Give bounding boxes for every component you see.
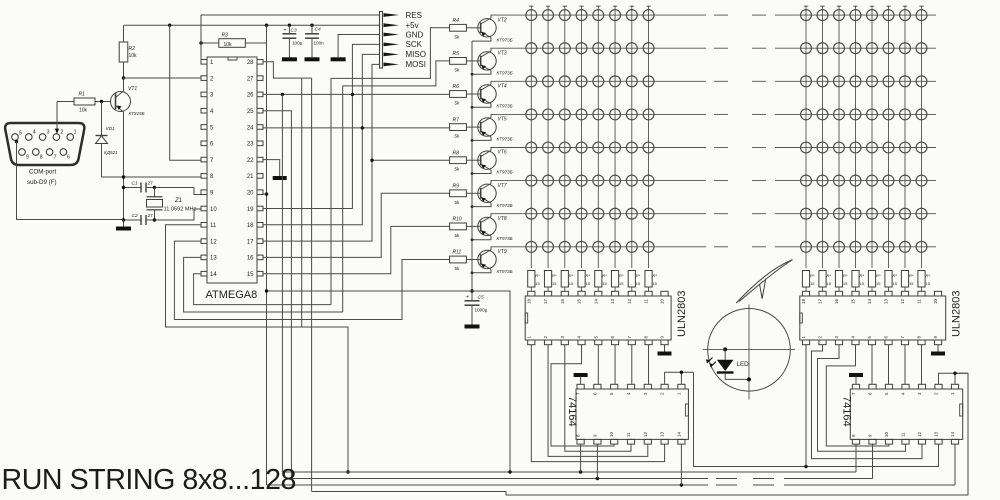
svg-text:R*: R*	[569, 273, 574, 278]
wire XTAL2 to pin 10	[155, 209, 202, 220]
LED matrix row wires	[491, 15, 937, 247]
resistor R9	[450, 184, 467, 205]
wire SCK riser to pin 19	[263, 44, 380, 208]
svg-text:15: 15	[602, 281, 607, 286]
wire bus2 riser	[263, 111, 291, 479]
wire pin 16 to R9	[263, 193, 450, 257]
wire ULN2 in4 wrap	[826, 345, 889, 446]
ground symbol ULN1	[658, 352, 672, 356]
junction VT7 emitter rail	[471, 205, 474, 208]
svg-text:8: 8	[40, 155, 43, 161]
wire bus4 DATA	[312, 373, 968, 495]
svg-text:13: 13	[934, 431, 939, 437]
junction MISO riser / R7 line	[361, 126, 364, 129]
wire R4 feed from loop	[331, 28, 450, 305]
connector X1 COM-port sub-D9	[5, 123, 84, 186]
svg-text:13: 13	[610, 299, 615, 305]
junction +5 rail / distribution	[470, 289, 473, 292]
svg-text:17: 17	[818, 299, 823, 305]
wire pin 22 to analog ground	[263, 160, 280, 176]
junction VT8 emitter rail	[471, 238, 474, 241]
transistor VT4	[466, 81, 512, 108]
svg-text:R*: R*	[926, 273, 931, 278]
junction 74164-1 pin8 on bus1	[579, 470, 582, 473]
junction VT4 emitter rail	[471, 106, 474, 109]
junction C2 / Z1 / XTAL2 node	[153, 218, 156, 221]
resistor R*a7	[628, 271, 641, 292]
svg-text:R*: R*	[876, 273, 881, 278]
IC U5 74164	[840, 384, 962, 444]
svg-text:10k: 10k	[224, 42, 233, 48]
junction C1 / Z1 / XTAL1 node	[153, 186, 156, 189]
svg-text:+: +	[284, 28, 287, 34]
svg-text:2: 2	[60, 130, 63, 136]
wire pin 12 loop to R11	[174, 241, 449, 319]
svg-text:19: 19	[247, 207, 254, 213]
LED matrix block2 LEDs	[801, 10, 927, 253]
wire bus1 CLK	[282, 471, 708, 473]
resistor R*b3	[835, 271, 848, 292]
svg-text:R5: R5	[453, 51, 460, 57]
svg-text:R*: R*	[619, 273, 624, 278]
svg-text:12: 12	[643, 431, 648, 437]
svg-text:VT5: VT5	[498, 117, 507, 123]
svg-text:14: 14	[867, 299, 872, 305]
svg-text:ATMEGA8: ATMEGA8	[206, 289, 258, 301]
svg-text:+5v: +5v	[406, 21, 419, 30]
svg-text:5: 5	[19, 131, 22, 137]
wire bus2 CLR	[291, 478, 708, 480]
wire GND net VD1 to ATMEGA8 pin 8	[102, 176, 202, 178]
magnifier circle	[708, 309, 791, 392]
svg-text:7: 7	[54, 155, 57, 161]
resistor R1	[57, 92, 111, 114]
svg-text:R*: R*	[552, 273, 557, 278]
wire ULN1 pin9 ground	[664, 345, 666, 352]
svg-text:VT6: VT6	[498, 150, 507, 156]
svg-text:КТ973Б: КТ973Б	[497, 269, 513, 274]
resistor R11	[450, 250, 467, 271]
svg-text:10: 10	[933, 299, 938, 305]
diode VD1	[96, 102, 119, 178]
svg-text:КТ315Б: КТ315Б	[129, 111, 145, 116]
svg-text:18: 18	[247, 223, 254, 229]
wire VCC riser to pin 7	[170, 25, 201, 160]
svg-text:R*: R*	[893, 273, 898, 278]
junction VT9 emitter rail	[471, 271, 474, 274]
transistor VT6	[466, 148, 512, 175]
wire +5 distribution	[267, 291, 511, 472]
resistor R*b5	[868, 271, 881, 292]
svg-text:КТ973Б: КТ973Б	[497, 170, 513, 175]
svg-text:11: 11	[917, 299, 922, 304]
wire pin 13 wrap loop to R5	[184, 257, 343, 312]
svg-text:R11: R11	[453, 250, 462, 256]
ground symbol C5	[465, 325, 480, 329]
resistor R*a6	[611, 271, 624, 292]
svg-text:R*: R*	[909, 273, 914, 278]
svg-text:15: 15	[893, 281, 898, 286]
svg-text:15: 15	[810, 281, 815, 286]
wire ULN1 in4 wrap	[551, 345, 614, 446]
wire bus1 riser	[281, 94, 283, 472]
junction pin 20 tap	[265, 192, 268, 195]
ground symbol main	[116, 220, 131, 231]
svg-text:R*: R*	[843, 273, 848, 278]
svg-text:9: 9	[26, 155, 29, 161]
wire ULN2 in1 drop	[805, 345, 807, 467]
svg-text:КТ973Б: КТ973Б	[497, 37, 513, 42]
svg-text:13: 13	[884, 299, 889, 305]
svg-text:100n: 100n	[314, 41, 325, 46]
ground symbol 74164-1	[574, 373, 588, 377]
wire pin 20 stub	[263, 193, 267, 195]
wire 74164-1 pin14 drop	[680, 444, 682, 485]
wire ULN1 in8 to 74164	[648, 345, 650, 385]
wire ULN2 in7 to 74164	[904, 345, 906, 385]
svg-text:VT1: VT1	[128, 86, 137, 92]
wire ULN1 in3 wrap	[565, 345, 631, 452]
resistor R*b2	[819, 271, 832, 292]
svg-text:11.0592 MHz: 11.0592 MHz	[164, 207, 197, 213]
ground symbol C3	[282, 57, 297, 61]
svg-text:12: 12	[900, 299, 905, 305]
svg-text:C4: C4	[315, 27, 321, 33]
svg-text:VT7: VT7	[498, 183, 507, 189]
svg-text:5k: 5k	[455, 101, 461, 106]
svg-text:14: 14	[593, 299, 598, 305]
magnifier arrow swoosh	[736, 260, 792, 303]
svg-text:VT9: VT9	[498, 249, 507, 255]
svg-text:11: 11	[210, 223, 217, 229]
svg-text:17: 17	[247, 239, 254, 245]
transistor VT2	[466, 15, 512, 42]
wire 74164-1 pin9 drop	[596, 444, 598, 478]
svg-text:13: 13	[660, 431, 665, 437]
resistor R3	[201, 33, 267, 48]
wire 74164-2 pin1 stub	[954, 373, 956, 384]
wire ULN2 in8 to 74164	[921, 345, 923, 385]
wire bus3 +5v	[267, 484, 709, 486]
svg-text:RES: RES	[406, 11, 422, 20]
svg-text:16: 16	[834, 299, 839, 305]
svg-text:MISO: MISO	[406, 50, 426, 59]
resistor R4	[450, 18, 467, 39]
svg-text:КТ973Б: КТ973Б	[497, 104, 513, 109]
svg-text:74164: 74164	[566, 396, 578, 427]
LED matrix block1 LEDs	[526, 10, 654, 253]
resistor R*b1	[802, 271, 815, 292]
svg-text:22: 22	[247, 158, 254, 164]
resistor R8	[450, 150, 467, 171]
LED detail symbol	[706, 349, 749, 379]
wire 74164-1 pin8 drop	[580, 444, 582, 472]
IC U1 ATMEGA8	[201, 57, 263, 301]
connector ISP header	[380, 11, 426, 69]
wire 74164-1 pin1 stub	[680, 372, 682, 384]
wire magnified column	[748, 305, 750, 400]
wire MISO riser to pin 18	[263, 54, 380, 224]
svg-text:3: 3	[47, 130, 50, 136]
junction SCK riser / R6 line	[351, 93, 354, 96]
svg-text:18: 18	[801, 299, 806, 305]
svg-text:15: 15	[586, 281, 591, 286]
svg-text:14: 14	[676, 431, 681, 437]
junction pin26 line / bus1 riser	[281, 93, 284, 96]
resistor R*b7	[901, 271, 914, 292]
wire 74164-1 data in pins 1-2	[665, 372, 694, 384]
resistor R5	[450, 51, 467, 72]
svg-text:15: 15	[860, 281, 865, 286]
wire ULN1 in1 wrap	[531, 345, 664, 462]
capacitor C3	[283, 25, 303, 57]
svg-text:КТ973Б: КТ973Б	[497, 70, 513, 75]
wire ULN2 in5 to 74164	[871, 345, 873, 385]
wire RES to header	[201, 14, 380, 16]
svg-text:28: 28	[247, 60, 254, 66]
svg-text:11: 11	[901, 432, 906, 437]
svg-text:1000µ: 1000µ	[475, 308, 488, 313]
svg-text:C3: C3	[291, 28, 297, 34]
svg-text:5k: 5k	[455, 167, 461, 172]
junction C1 left	[122, 186, 125, 189]
svg-text:+: +	[466, 294, 469, 300]
svg-text:15: 15	[577, 299, 582, 305]
resistor R*a2	[544, 271, 557, 292]
svg-text:15: 15	[926, 281, 931, 286]
ground symbol 74164-2	[849, 373, 863, 377]
crystal Z1	[147, 188, 197, 221]
svg-text:R9: R9	[453, 184, 460, 190]
wire XTAL1 to pin 9	[155, 188, 202, 195]
svg-text:R*: R*	[636, 273, 641, 278]
svg-text:ULN2803: ULN2803	[951, 291, 963, 337]
svg-text:VT4: VT4	[498, 84, 507, 90]
ground symbol header GND	[331, 57, 346, 61]
wire ULN2 in2 wrap	[812, 345, 923, 459]
svg-text:21: 21	[247, 174, 254, 180]
svg-text:R1: R1	[79, 92, 86, 98]
svg-text:5k: 5k	[455, 34, 461, 39]
junction LED anode	[723, 347, 727, 351]
capacitor C4	[305, 25, 324, 57]
svg-text:R2: R2	[129, 46, 136, 52]
svg-text:1: 1	[74, 130, 77, 136]
svg-text:C5: C5	[478, 294, 484, 300]
svg-text:Z1: Z1	[174, 198, 182, 204]
svg-text:6: 6	[67, 155, 70, 161]
wire pin 26 to R6	[263, 93, 450, 95]
wire COM pin2 to R1	[56, 102, 58, 134]
svg-text:15: 15	[827, 281, 832, 286]
wire R8 line	[372, 159, 450, 161]
wire R3 to +5 rail	[266, 25, 268, 43]
svg-text:15: 15	[619, 281, 624, 286]
LED matrix block2 column wires	[804, 6, 924, 269]
svg-text:12: 12	[210, 239, 217, 245]
wire R5 feed from loop	[343, 61, 450, 312]
junction C2 left / ground	[122, 218, 125, 221]
junction RES / pin1 / R3	[199, 41, 202, 44]
resistor R10	[450, 217, 467, 238]
svg-text:R*: R*	[586, 273, 591, 278]
junction pin11 loop on bus1	[346, 470, 349, 473]
svg-text:R*: R*	[602, 273, 607, 278]
svg-text:16: 16	[247, 256, 254, 262]
svg-text:14: 14	[210, 272, 217, 278]
svg-text:4: 4	[33, 130, 36, 136]
resistor R*a4	[578, 271, 591, 292]
transistor VT1	[111, 78, 145, 220]
svg-text:10: 10	[210, 207, 217, 213]
svg-text:VT2: VT2	[498, 17, 507, 23]
svg-text:COM-port: COM-port	[29, 169, 56, 176]
svg-text:17: 17	[543, 299, 548, 305]
svg-text:5k: 5k	[455, 233, 461, 238]
wire +5v top rail	[124, 24, 380, 26]
svg-text:16: 16	[560, 299, 565, 305]
svg-text:R6: R6	[453, 84, 460, 90]
resistor R*b8	[918, 271, 931, 292]
transistor VT5	[466, 114, 512, 141]
svg-text:15: 15	[247, 272, 254, 278]
svg-text:26: 26	[247, 93, 254, 99]
svg-text:GND: GND	[406, 30, 424, 39]
resistor R*a8	[645, 271, 658, 292]
svg-text:74164: 74164	[840, 396, 852, 427]
wire GND header drop	[338, 35, 380, 58]
ground symbol C4	[305, 57, 320, 61]
resistor R7	[450, 117, 467, 138]
svg-text:15: 15	[851, 299, 856, 305]
resistor R*a3	[561, 271, 574, 292]
svg-text:23: 23	[247, 142, 254, 148]
svg-text:27: 27	[247, 76, 254, 82]
junction LED cathode	[747, 377, 751, 381]
svg-text:10: 10	[884, 431, 889, 437]
svg-text:12: 12	[627, 299, 632, 305]
IC U2 ULN2803	[525, 291, 688, 345]
wire pin 24 to R7	[263, 127, 450, 129]
svg-text:27: 27	[148, 213, 154, 219]
svg-text:R*: R*	[827, 273, 832, 278]
svg-text:R*: R*	[810, 273, 815, 278]
svg-text:24: 24	[247, 125, 254, 131]
wire ULN1 in7 to 74164	[631, 345, 633, 385]
junction COM pin5 ground tap	[15, 140, 18, 143]
wire pin 14 wrap loop to R4	[194, 274, 331, 305]
svg-text:R*: R*	[653, 273, 658, 278]
wire VT1 collector to ATMEGA8 pin 2	[124, 77, 202, 79]
wire +5 emitter rail	[471, 41, 473, 300]
junction +5v rail / R3 riser	[265, 24, 268, 27]
svg-text:18: 18	[526, 299, 531, 305]
svg-text:11: 11	[644, 299, 649, 304]
svg-text:10k: 10k	[129, 53, 138, 59]
svg-text:20: 20	[247, 191, 254, 197]
wire bus4 riser (data)	[311, 78, 313, 491]
resistor R*b6	[885, 271, 898, 292]
svg-text:14: 14	[950, 431, 955, 437]
junction R2 / VT1 collector / pin2 net	[122, 76, 125, 79]
svg-text:100µ: 100µ	[292, 41, 303, 46]
ground symbol pin22	[273, 176, 287, 180]
svg-text:R10: R10	[453, 217, 462, 223]
wire 74164-2 data in pins 1-2	[939, 373, 969, 384]
transistor VT7	[466, 181, 512, 208]
junction 74164-1 pin9 on bus2	[596, 477, 599, 480]
junction GND / VT1 emitter line	[122, 175, 125, 178]
junction MOSI riser / R8 line	[370, 159, 373, 162]
wire 74164-2 pin7 ground stub	[855, 377, 857, 384]
resistor R*a5	[595, 271, 608, 292]
wire ULN2 pin9 ground	[937, 345, 939, 352]
svg-text:13: 13	[210, 256, 217, 262]
svg-text:КТ973Б: КТ973Б	[497, 236, 513, 241]
svg-text:R8: R8	[453, 150, 460, 156]
svg-text:15: 15	[552, 281, 557, 286]
wire pin27 drop	[301, 78, 303, 327]
svg-text:VT3: VT3	[498, 50, 507, 56]
svg-text:5k: 5k	[455, 67, 461, 72]
LED matrix block1 column wires	[529, 6, 651, 269]
svg-text:12: 12	[917, 431, 922, 437]
junction R1 / VD1	[100, 100, 103, 103]
junction 74164-2 pins1-2	[953, 372, 956, 375]
svg-text:VT8: VT8	[498, 216, 507, 222]
svg-text:RUN STRING 8x8...128: RUN STRING 8x8...128	[2, 464, 297, 496]
resistor R2	[119, 25, 137, 78]
transistor VT9	[466, 247, 512, 274]
svg-text:5k: 5k	[455, 266, 461, 271]
svg-text:15: 15	[569, 281, 574, 286]
wire ULN2 in3 wrap	[818, 345, 906, 452]
svg-text:5k: 5k	[455, 200, 461, 205]
junction VT5 emitter rail	[471, 139, 474, 142]
svg-text:R*: R*	[860, 273, 865, 278]
wire bus3 riser (+5)	[266, 43, 268, 485]
svg-text:C1: C1	[132, 181, 138, 187]
wire ULN1 in5 to 74164	[597, 345, 599, 385]
svg-text:15: 15	[535, 281, 540, 286]
wire magnified row	[703, 348, 795, 350]
capacitor C1	[124, 181, 155, 193]
junction x510 on bus1	[508, 470, 511, 473]
svg-text:10k: 10k	[79, 108, 88, 114]
svg-text:R3: R3	[222, 33, 229, 39]
wire MOSI riser to pin 17	[263, 64, 380, 241]
svg-text:R*: R*	[535, 273, 540, 278]
transistor VT8	[466, 214, 512, 241]
wire 74164-1 pin7 ground stub	[580, 377, 582, 384]
wire ULN1 in6 to 74164	[614, 345, 616, 385]
svg-text:R7: R7	[453, 117, 460, 123]
svg-text:15: 15	[636, 281, 641, 286]
junction VT3 emitter rail	[471, 73, 474, 76]
svg-text:ULN2803: ULN2803	[676, 291, 688, 337]
transistor VT3	[466, 48, 512, 75]
svg-text:КД521: КД521	[104, 150, 118, 155]
svg-text:15: 15	[843, 281, 848, 286]
svg-text:КТ973Б: КТ973Б	[497, 203, 513, 208]
junction +5v rail / C3	[288, 24, 291, 27]
junction 74164-1 pins1-2	[680, 371, 683, 374]
IC U3 74164	[566, 384, 688, 444]
junction 74164-1 pin14 on bus3	[680, 483, 683, 486]
wire data from module2	[694, 372, 939, 466]
svg-text:КТ973Б: КТ973Б	[497, 137, 513, 142]
svg-text:sub-D9 (F): sub-D9 (F)	[27, 179, 57, 186]
